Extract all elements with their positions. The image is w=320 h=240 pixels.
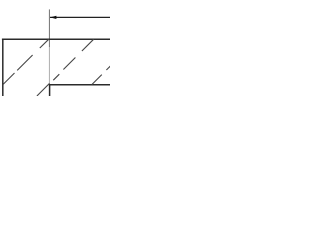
- hatch S4: [37, 83, 50, 96]
- hatch S5: [53, 74, 59, 80]
- left edge: [2, 39, 4, 97]
- top edge: [2, 38, 110, 40]
- hatch T2: [63, 58, 75, 70]
- step horizontal edge: [49, 84, 110, 86]
- extension line upper: [48, 9, 50, 47]
- hatch T1: [82, 39, 94, 51]
- hatch A2: [17, 55, 32, 70]
- extension line lower: [48, 47, 50, 84]
- hatch A1: [3, 73, 15, 85]
- dimension line: [50, 16, 110, 18]
- hatch B2: [106, 66, 110, 70]
- arrowhead: [50, 16, 57, 19]
- step vertical edge: [49, 84, 51, 96]
- hatch A3: [40, 39, 49, 48]
- hatch B1: [92, 75, 102, 85]
